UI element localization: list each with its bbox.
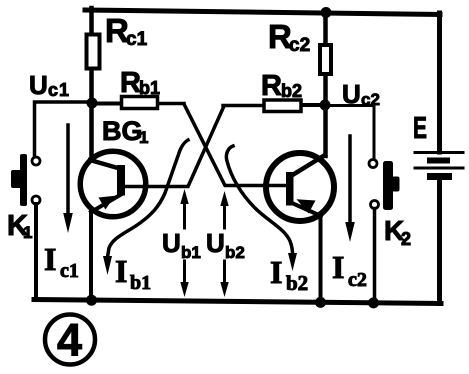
- svg-text:I: I: [44, 241, 56, 277]
- arrow Ic1 current: [63, 125, 73, 233]
- svg-text:c1: c1: [60, 260, 79, 282]
- label Ub2: [206, 228, 245, 262]
- resistor R_c2: [320, 45, 331, 74]
- wire cross-coupling Rb1 to BG2 base: [184, 104, 287, 186]
- wire Rb2 left lead: [223, 104, 263, 108]
- wire BG2 collector: [293, 105, 326, 175]
- label Ib2: [270, 254, 308, 295]
- svg-text:b1: b1: [139, 78, 160, 98]
- switch K1 terminal bottom: [32, 196, 40, 204]
- node BG2 emitter junction: [315, 297, 326, 308]
- svg-text:4: 4: [57, 315, 82, 366]
- svg-text:2: 2: [401, 229, 411, 249]
- wire Rc2 top lead: [323, 11, 328, 43]
- label Ic1: [44, 241, 79, 282]
- resistor R_b1: [122, 97, 158, 109]
- svg-text:BG: BG: [102, 116, 143, 146]
- svg-text:b2: b2: [281, 81, 302, 101]
- svg-text:U: U: [29, 70, 48, 100]
- label Uc2: [342, 79, 380, 109]
- battery E plate short 1: [427, 158, 450, 164]
- battery E plate long bottom: [415, 167, 463, 170]
- arrow Ub2 voltage (double): [220, 191, 228, 297]
- svg-text:b1: b1: [130, 272, 151, 294]
- label Rc1: [105, 12, 148, 50]
- transistor BG2 circle: [266, 153, 334, 221]
- label Rb1: [120, 67, 160, 99]
- label Rb2: [261, 70, 302, 102]
- wire Rc1 top lead: [89, 8, 94, 34]
- switch K2 terminal bottom: [371, 201, 379, 209]
- label K2: [384, 215, 411, 249]
- wire right rail top: [437, 13, 442, 152]
- wire K1 to bottom rail: [34, 204, 38, 300]
- svg-text:1: 1: [139, 128, 148, 147]
- svg-text:c2: c2: [348, 269, 367, 291]
- label K1: [7, 210, 32, 242]
- wire top rail: [85, 10, 440, 15]
- label Ib1: [115, 253, 151, 294]
- arrow Ib2 base current (curved): [226, 146, 297, 271]
- wire BG1 emitter: [91, 195, 121, 302]
- figure number 4: [45, 315, 95, 366]
- transistor BG1 circle: [80, 151, 146, 217]
- arrow BG1 emitter (PNP): [99, 196, 116, 210]
- wire Rb1 left lead: [92, 102, 121, 106]
- transistor BG1 base bar: [117, 165, 125, 196]
- node Uc1 junction: [87, 98, 98, 109]
- switch K1 actuator: [11, 154, 27, 206]
- switch K2 actuator: [383, 161, 400, 210]
- node BG1 emitter junction: [86, 295, 97, 306]
- arrow Ib1 base current (curved): [103, 140, 188, 275]
- wire Uc1 to K1: [35, 102, 93, 156]
- svg-text:I: I: [270, 254, 282, 290]
- switch K1 terminal top: [32, 157, 40, 165]
- wire K2 to bottom rail: [373, 209, 377, 304]
- wire Rc2 bottom lead: [323, 76, 328, 105]
- wire BG2 emitter: [293, 204, 321, 302]
- wire Rb2 right lead: [302, 103, 326, 107]
- svg-text:b2: b2: [225, 243, 245, 262]
- wire cross-coupling Rb2 to BG1 base: [125, 106, 224, 187]
- svg-text:U: U: [206, 228, 225, 258]
- label Uc1: [29, 70, 70, 100]
- label Ic2: [332, 249, 367, 291]
- node Rc2 top junction: [321, 7, 332, 18]
- arrow Ic2 current: [345, 136, 355, 242]
- wire right rail bottom: [437, 179, 442, 304]
- wire Uc2 to K2: [325, 106, 374, 159]
- svg-text:U: U: [162, 228, 181, 258]
- battery E plate long top: [415, 151, 463, 154]
- battery E plate short 2: [427, 173, 452, 180]
- label Rc2: [268, 18, 310, 56]
- svg-text:c2: c2: [289, 35, 310, 56]
- transistor BG2 base bar: [286, 172, 294, 206]
- wire bottom rail: [34, 300, 441, 304]
- label Ub1: [162, 228, 201, 262]
- svg-text:b1: b1: [181, 243, 201, 262]
- svg-text:I: I: [332, 249, 344, 285]
- svg-text:R: R: [120, 67, 141, 99]
- svg-text:E: E: [413, 110, 427, 145]
- svg-text:b2: b2: [286, 271, 308, 295]
- switch K2 terminal top: [369, 160, 377, 168]
- resistor R_c1: [87, 35, 100, 69]
- wire Rb1 right lead: [158, 102, 184, 106]
- svg-text:c1: c1: [48, 80, 70, 100]
- arrow Ub1 voltage (double): [180, 189, 188, 297]
- label BG1: [102, 116, 148, 147]
- node Uc2 junction: [320, 100, 331, 111]
- wire Rc1 bottom lead: [89, 70, 94, 104]
- svg-text:R: R: [261, 70, 282, 102]
- wire BG1 collector: [90, 103, 120, 169]
- arrow BG2 emitter (PNP): [297, 199, 316, 213]
- svg-text:1: 1: [23, 223, 32, 242]
- node K2 bottom junction: [368, 297, 379, 308]
- svg-text:c1: c1: [126, 29, 148, 50]
- svg-text:I: I: [115, 253, 127, 289]
- resistor R_b2: [264, 100, 301, 112]
